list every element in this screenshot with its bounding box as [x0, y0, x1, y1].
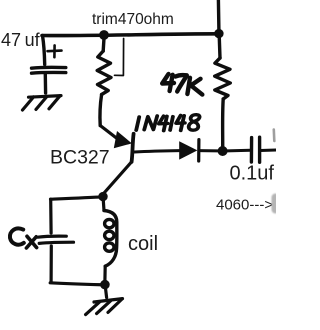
svg-text:4060--->: 4060--->	[216, 197, 273, 214]
svg-text:47 uf: 47 uf	[1, 30, 41, 50]
svg-text:BC327: BC327	[50, 147, 110, 169]
svg-text:0.1uf: 0.1uf	[230, 163, 275, 185]
svg-text:coil: coil	[128, 233, 158, 255]
svg-text:trim470ohm: trim470ohm	[92, 11, 174, 28]
